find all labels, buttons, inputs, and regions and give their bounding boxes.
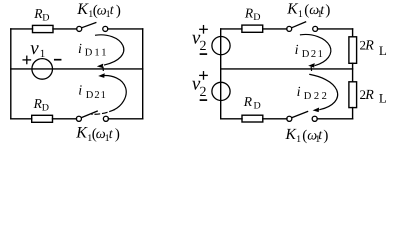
- svg-text:t: t: [110, 3, 115, 18]
- svg-text:1: 1: [40, 48, 46, 60]
- wire: middle rail (right circuit): [221, 68, 353, 70]
- current arrow iD21: [92, 73, 126, 114]
- wire: bottom rail right segment: [108, 118, 142, 120]
- current arrow iD11: [96, 35, 124, 71]
- svg-text:K: K: [286, 1, 298, 18]
- switch K1 (right circuit, top): [287, 22, 318, 32]
- wire: bottom rail middle segment: [53, 118, 77, 120]
- svg-text:1: 1: [296, 134, 301, 145]
- wire: right border bottom stub: [352, 108, 354, 119]
- svg-text:L: L: [379, 43, 387, 58]
- minus sign of V1: [55, 59, 61, 61]
- wire: left vertical (source chain, right circuit): [220, 29, 222, 119]
- wire: bottom rail left segment: [11, 118, 32, 120]
- svg-text:R: R: [243, 94, 253, 109]
- wire: top rail left segment (right circuit): [221, 28, 242, 30]
- svg-text:2: 2: [200, 85, 207, 100]
- svg-text:D: D: [254, 100, 261, 111]
- plus sign of V2 lower: [200, 72, 207, 79]
- svg-text:t: t: [109, 127, 114, 142]
- minus sign of V2 lower: [201, 99, 207, 101]
- svg-text:D: D: [42, 13, 49, 24]
- source V2 upper: [212, 37, 230, 55]
- svg-text:D21: D21: [86, 90, 107, 101]
- svg-text:i: i: [297, 85, 301, 100]
- wire: left border (left circuit): [10, 29, 12, 119]
- resistor 2RL lower: [349, 82, 357, 108]
- plus sign of V2 upper: [200, 26, 207, 33]
- switch K1 (right circuit, bottom): [287, 112, 318, 122]
- source V1: [32, 59, 53, 80]
- svg-text:K: K: [75, 125, 88, 142]
- plus sign of V1: [23, 56, 30, 63]
- resistor RD (right circuit, top): [242, 25, 263, 32]
- svg-text:L: L: [379, 91, 387, 106]
- resistor RD (left circuit, top): [33, 25, 54, 32]
- current arrow iD22 (right circuit): [310, 74, 338, 112]
- svg-text:i: i: [78, 42, 82, 57]
- wire: top rail right segment: [108, 28, 143, 30]
- svg-text:2: 2: [200, 39, 207, 54]
- svg-text:i: i: [295, 43, 299, 58]
- resistor RD (right circuit, bottom): [242, 115, 263, 122]
- resistor 2RL upper: [349, 37, 357, 64]
- svg-text:D: D: [253, 12, 260, 23]
- svg-text:D: D: [42, 103, 49, 114]
- switch K1 (left circuit, top): [77, 23, 108, 32]
- switch K1 (left circuit, bottom): [76, 111, 108, 121]
- minus sign of V2 upper: [201, 53, 207, 55]
- wire: top rail right segment (right circuit): [318, 28, 353, 30]
- wire: right border top stub: [352, 29, 354, 37]
- svg-text:): ): [115, 127, 120, 143]
- svg-text:K: K: [285, 126, 297, 143]
- svg-text:R: R: [364, 38, 374, 53]
- wire: right border middle stub: [352, 63, 354, 82]
- wire: top rail middle segment (right circuit): [263, 28, 287, 30]
- svg-text:): ): [325, 3, 330, 19]
- wire: bottom rail middle segment (right circuit): [263, 118, 287, 120]
- source V2 lower: [212, 82, 230, 100]
- resistor RD (left circuit, bottom): [32, 115, 53, 122]
- wire: middle rail (left circuit): [11, 68, 143, 70]
- wire: top rail middle segment: [53, 28, 77, 30]
- svg-text:1: 1: [298, 9, 303, 20]
- wire: right border (left circuit): [142, 29, 144, 119]
- wire: top rail left segment: [11, 28, 33, 30]
- svg-text:D21: D21: [302, 49, 325, 60]
- svg-text:D11: D11: [85, 48, 109, 59]
- svg-text:K: K: [76, 1, 89, 18]
- svg-text:R: R: [364, 88, 374, 103]
- current arrow iD21 (right circuit): [301, 34, 331, 70]
- svg-text:v: v: [30, 38, 39, 59]
- svg-text:i: i: [78, 84, 82, 99]
- svg-text:): ): [323, 128, 328, 144]
- svg-text:): ): [116, 3, 121, 19]
- wire: bottom rail right segment (right circuit): [317, 118, 353, 120]
- svg-text:D22: D22: [304, 91, 330, 102]
- wire: bottom rail left segment (right circuit): [221, 118, 242, 120]
